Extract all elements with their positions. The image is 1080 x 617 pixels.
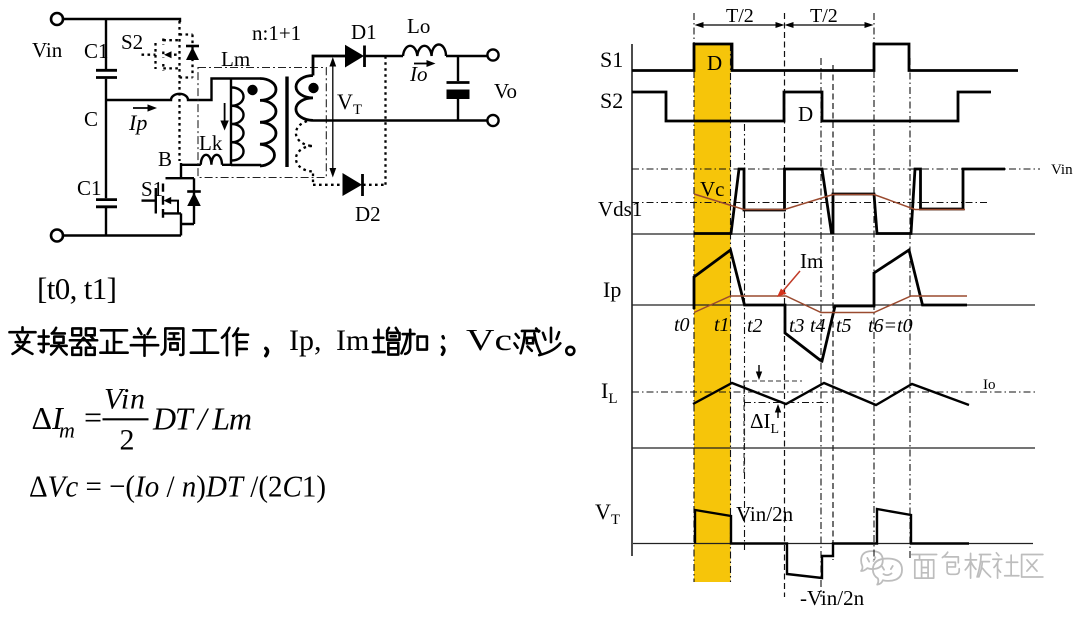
svg-text:-Vin/2n: -Vin/2n [800,586,865,610]
S2 body diode dotted leads [180,35,193,78]
output capacitor bottom slab [447,90,470,100]
svg-text:D: D [798,102,813,126]
trace IL [693,383,969,405]
formula dIm: fraction bar [103,418,149,420]
svg-text:S1: S1 [141,177,163,201]
S1 body diode leads [181,178,194,224]
terminal bottom-left [51,230,63,242]
svg-text:Vc: Vc [700,177,725,201]
node t0 gridline [693,13,695,582]
transistor S1 body arrow [167,201,179,213]
capacitor C1 upper : lead [105,19,107,69]
svg-text:Io: Io [983,377,996,393]
svg-text:S1: S1 [600,47,623,72]
node t7 gridline [909,58,911,560]
watermark char 包 [942,552,959,574]
transformer primary winding [260,79,276,167]
transistor S2 gate lead [142,54,156,56]
sentence char 半 [131,328,158,355]
dIL dash-dot level bottom [744,402,831,404]
capacitor C1 lower : plates [96,200,117,207]
output capacitor lead [457,56,459,81]
svg-text:Lm: Lm [221,47,250,71]
svg-text:Ip,: Ip, [289,324,322,357]
Vc level dash-dot [632,202,990,204]
separator line below Vds1 [632,233,1035,235]
svg-text:Vds1: Vds1 [598,197,642,221]
transistor S2 drain-source dotted line [178,21,180,161]
watermark char 面 [912,555,937,579]
svg-text:DT / Lm: DT / Lm [152,401,252,437]
svg-text:B: B [158,147,172,171]
svg-text:=: = [84,399,102,435]
dIL dashed vertical [743,381,745,473]
separator line below IL [632,447,1035,449]
transformer secondary lower dotted winding [296,120,313,184]
svg-text:ΔVc = −(Io / n)DT /(2C1): ΔVc = −(Io / n)DT /(2C1) [29,469,326,504]
svg-text:Ip: Ip [128,110,147,135]
node t5 gridline [832,65,834,560]
Im pointer arrow red [783,271,800,291]
inductor Lm magnetizing branch spine [230,79,232,166]
svg-text:t5: t5 [836,315,852,337]
secondary top lead [313,56,345,76]
svg-text:n:1+1: n:1+1 [252,21,301,45]
transistor S2 gate vertical [154,43,156,69]
svg-text:Ip: Ip [603,277,621,302]
watermark logo left bubble [861,551,883,571]
S2 body diode triangle [186,47,199,60]
curve Im (red) [694,296,967,313]
diode D1 triangle [345,45,364,68]
watermark char 板 [965,553,990,578]
trace Ip [694,250,967,361]
transistor S2 body arrow [168,54,178,56]
inductor Lk [201,155,222,165]
Ip zero axis [632,304,1035,306]
sentence fullwidth period [566,347,574,355]
svg-text:C: C [84,107,98,131]
transformer primary bottom wire [222,165,260,166]
diode D2 dotted cathode wire [363,184,386,186]
svg-text:D2: D2 [355,202,381,226]
trace VT [695,509,969,578]
sentence char 工 [191,330,218,352]
secondary dot [308,83,318,93]
wire bottom rail [63,234,181,236]
transistor S1 gate vertical [155,188,157,214]
svg-text:D: D [707,51,722,75]
transistor S2 drain stub [163,39,179,41]
sentence char 减 [514,328,540,353]
node t6 gridline [873,13,875,560]
diode D2 dotted anode wire [313,184,342,186]
sentence char 变 [9,327,35,354]
svg-text:Vin: Vin [1051,162,1073,178]
svg-text:C1: C1 [84,39,109,63]
transistor S1 channel segments [162,184,164,218]
svg-text:m: m [59,418,75,443]
wire node C rail with crossover hump [106,79,260,101]
svg-text:Lo: Lo [407,14,430,38]
inductor Lm coil bumps [232,88,244,161]
sentence char 器 [70,328,97,354]
svg-text:t0: t0 [674,314,690,336]
svg-text:t2: t2 [747,315,763,337]
svg-text:T/2: T/2 [726,5,754,27]
trace S2 [632,92,991,121]
sentence char 周 [162,328,184,354]
svg-text:C1: C1 [77,176,102,200]
svg-text:Io: Io [409,62,428,86]
transistor S1 source lead [180,213,182,235]
svg-text:Vin/2n: Vin/2n [736,502,794,526]
waveform vertical axis [631,44,633,556]
diode D1 cathode bar [363,46,366,68]
dIL dashed level top [744,380,802,382]
curve Vc (red) [694,194,965,210]
capacitor C1 upper : lead2 [105,79,107,100]
sentence char 增 [373,328,400,355]
S1 body diode triangle [187,193,201,207]
Io arrow [414,63,429,65]
S2 body diode cathode bar [186,45,199,48]
trace S1 [632,44,1018,71]
primary dot [247,85,257,95]
dotted freewheeling path vertical [384,56,386,185]
svg-text:Im: Im [336,324,369,357]
Io level dash-dot [632,391,1038,393]
node t1 gridline [730,44,732,582]
transistor S1 drain stub [166,177,182,179]
sentence char 作 [222,328,248,355]
svg-text:D1: D1 [351,20,377,44]
inductor Lo [403,45,446,56]
sentence char 正 [100,330,127,352]
terminal top-right [487,49,498,60]
wire top rail [63,19,180,22]
transistor S1 source stub [163,212,181,214]
diode D2 triangle [343,173,363,196]
capacitor C1 lower : lead [105,100,107,198]
transistor S2 source stub [163,67,179,69]
svg-text:t1: t1 [714,314,730,336]
svg-text:[t0, t1]: [t0, t1] [37,271,117,306]
Im down arrow [224,103,226,122]
sentence char 换 [39,328,67,355]
dIL up arrow [777,410,779,418]
node t2 gridline [744,124,746,550]
transistor S1 gate lead [142,199,156,201]
wire node B to Lk [181,163,201,178]
svg-text:t4: t4 [810,315,826,337]
transformer core [285,77,288,168]
sentence fullwidth comma [266,348,268,355]
wire secondary top to D1 [345,55,346,57]
watermark char 区 [1022,555,1043,577]
Vin level dash-dot [632,168,1040,170]
sentence char 少 [539,328,560,355]
transistor S2 channel segments [162,39,164,71]
node t4 gridline [820,58,822,597]
diode D2 cathode bar [361,174,364,196]
svg-text:S2: S2 [121,30,143,54]
sentence fullwidth semicolon [442,337,444,355]
highlight band t0-t1 [694,44,731,582]
dIL down arrow [758,365,760,374]
svg-text:Vin: Vin [32,38,63,62]
S1 body diode cathode bar [187,190,201,193]
svg-text:t6=t0: t6=t0 [868,315,913,337]
svg-text:2: 2 [120,424,135,457]
output capacitor top plate [447,81,470,84]
svg-text:Lk: Lk [199,131,223,155]
VT zero axis [633,543,1033,545]
node t3 gridline [784,13,786,597]
svg-text:t3: t3 [789,315,805,337]
terminal top-left [51,13,63,25]
T/2 dimension arrows [699,24,869,26]
sentence char 加 [401,330,426,354]
wire Lo to Vo+ terminal [446,55,488,57]
wire D1 to Lo [364,55,403,57]
Ip arrow [133,107,151,109]
svg-text:Im: Im [800,249,823,273]
watermark logo right bubble face [873,559,902,585]
transformer secondary upper winding [296,76,313,121]
output capacitor lead2 [457,99,459,121]
svg-text:Vin: Vin [104,383,145,416]
svg-text:Vo: Vo [494,79,517,103]
terminal bottom-right [487,115,498,126]
output rail bottom [313,119,488,121]
svg-text:Vc: Vc [466,322,512,357]
svg-text:S2: S2 [600,88,623,113]
svg-text:T/2: T/2 [810,5,838,27]
V_T measurement arrow [332,62,334,172]
watermark char 社 [993,553,1019,578]
capacitor C1 upper : plates [96,70,117,77]
trace Vds1 [694,169,1005,234]
transformer dash-dot boundary box [198,68,326,178]
capacitor C1 lower : lead2 [105,208,107,236]
